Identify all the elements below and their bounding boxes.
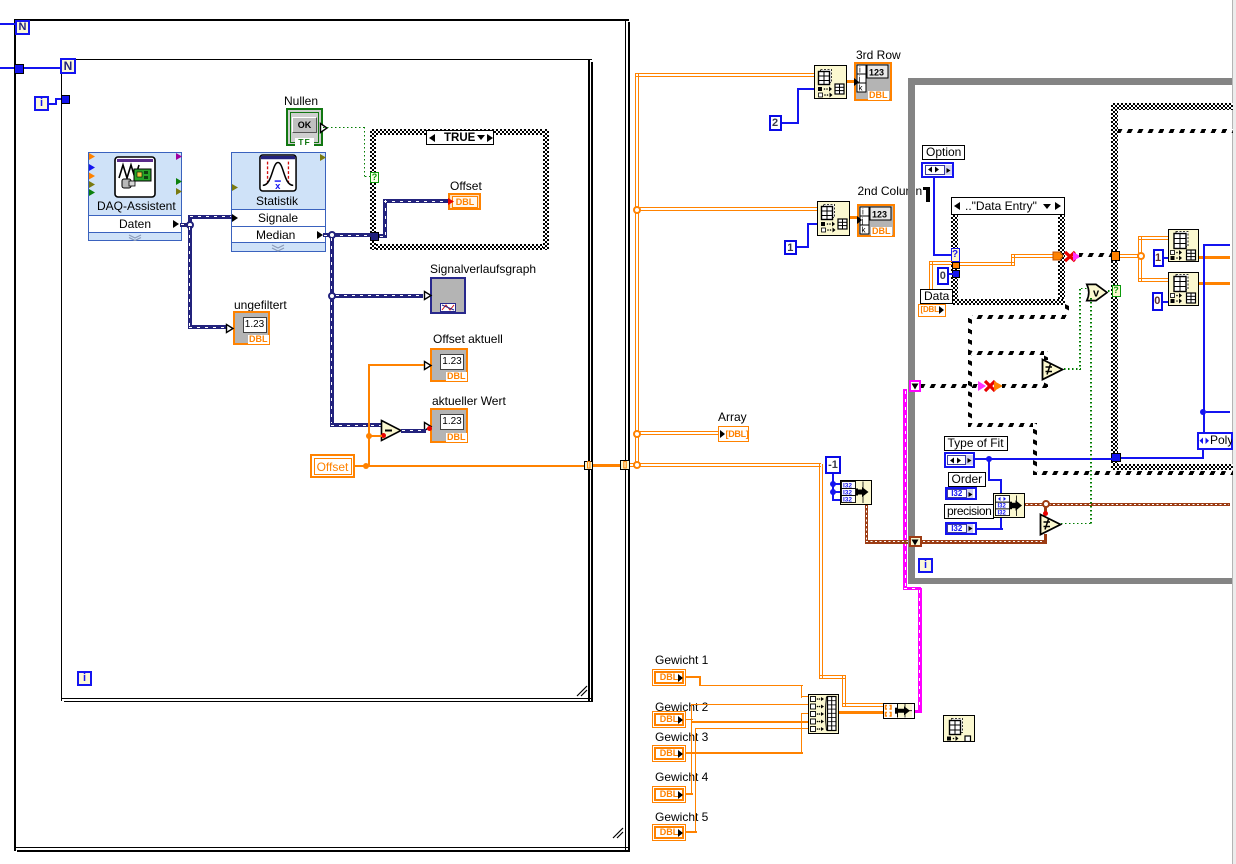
control I32 Order — [945, 487, 977, 500]
wire array down to build-matrix — [819, 464, 823, 678]
svg-text:I32: I32 — [843, 489, 852, 496]
junction dot Offset — [363, 463, 369, 469]
label Option — [922, 145, 965, 160]
tunnel outer loop left — [14, 64, 24, 74]
label Order — [948, 472, 987, 487]
wire count outer N — [0, 23, 15, 25]
tunnel orange Data Entry left — [952, 262, 960, 269]
wire Offset to subtract — [368, 435, 382, 437]
junction dot blue — [1200, 409, 1206, 415]
wire precision to bundle — [977, 528, 1003, 530]
indicator DBL Offset aktuell — [430, 348, 468, 382]
i terminal outer loop — [34, 96, 49, 111]
broken wire dashed from shift register — [921, 384, 978, 388]
wire dynamic down to ungefiltert — [188, 226, 192, 327]
not-equal node bottom — [1039, 513, 1064, 537]
window edge strip — [1232, 0, 1236, 864]
indicator DBL ungefiltert — [233, 311, 270, 345]
wire i to inner tunnel — [49, 103, 56, 105]
tunnel case TRUE left — [370, 232, 379, 241]
label Nullen — [284, 95, 318, 108]
label Signalverlaufsgraph — [430, 263, 536, 276]
svg-text:i: i — [859, 66, 861, 75]
wire constant 0 to tunnel — [949, 273, 953, 275]
node Build Array — [808, 694, 840, 734]
constant 1 — [784, 240, 797, 255]
case selector terminal ? right case — [1112, 285, 1121, 297]
broken wire dashed to not-equal — [1002, 384, 1048, 388]
case structure Data Entry selector — [951, 197, 1065, 215]
wire blue branch right — [1206, 411, 1230, 413]
constant -1 — [825, 456, 841, 474]
label precision — [944, 504, 994, 519]
indicator array [DBL] — [718, 426, 750, 442]
case structure right border — [1111, 103, 1233, 110]
label ungefiltert — [234, 299, 287, 312]
wire blue Polyn to tunnel — [1202, 450, 1204, 459]
wire dynamic Daten output — [180, 223, 192, 227]
broken wire arrow orange — [993, 380, 1004, 392]
label Gewicht 1 — [655, 654, 708, 667]
wire constant 0 right — [1163, 301, 1168, 303]
case structure TRUE border — [370, 129, 549, 135]
svg-text:x: x — [275, 181, 281, 192]
svg-text:I32: I32 — [843, 482, 852, 489]
broken wire dashed bottom right — [1033, 471, 1234, 475]
junction dot -1 b — [830, 489, 836, 495]
junction ring Median — [328, 231, 336, 239]
case selector terminal ? — [370, 172, 379, 183]
black elbow mark — [923, 187, 930, 191]
wire array inside Data Entry case — [960, 262, 1015, 266]
indicator 3rd Row — [854, 62, 893, 101]
control I32 precision — [945, 522, 977, 535]
constant 0 right — [1152, 292, 1164, 311]
wire dynamic up to Signale — [188, 215, 192, 225]
wire Option to case selector — [933, 178, 935, 256]
wire Gewicht 5 — [686, 831, 697, 833]
svg-text:I32: I32 — [997, 510, 1006, 516]
Statistik express VI — [231, 152, 327, 252]
tunnel indexing Data Entry right — [1052, 250, 1064, 262]
i terminal while loop — [918, 558, 933, 573]
constant 2 — [769, 115, 782, 131]
wire brown down to not-equal — [1044, 506, 1048, 514]
control array Data [DBL] — [918, 304, 946, 317]
wire constant 1 to index — [797, 246, 809, 248]
N terminal outer loop — [15, 20, 30, 35]
svg-text:I32: I32 — [997, 503, 1006, 509]
indicator 2nd Column — [857, 204, 896, 237]
svg-text:i: i — [862, 207, 864, 216]
label Array — [718, 411, 747, 424]
constant 0 Data Entry — [937, 267, 949, 285]
subtract node — [380, 419, 404, 443]
wire array main vertical — [635, 73, 639, 465]
junction ring array indicator branch — [640, 431, 718, 435]
control ring Option — [921, 162, 954, 178]
broken wire arrow magenta 2 — [977, 380, 987, 392]
tunnel blue right case — [1111, 453, 1121, 463]
wire brown cluster output — [1025, 503, 1230, 507]
junction ring brown — [1042, 500, 1050, 508]
label Gewicht 2 — [655, 701, 708, 714]
wire Gewicht 1 — [686, 676, 701, 678]
wire into left tunnel — [0, 67, 14, 69]
wire magenta matrix — [915, 710, 922, 714]
coercion dot not-equal — [1043, 511, 1048, 516]
wire array top to Index Array 1 — [635, 73, 815, 77]
label Type of Fit — [944, 436, 1008, 451]
svg-text:v: v — [1093, 288, 1100, 300]
N terminal inner loop — [60, 58, 76, 74]
node Index Array 1 — [814, 65, 847, 99]
indicator DBL Offset inside case — [448, 193, 481, 210]
svg-text:I32: I32 — [843, 496, 852, 503]
wire Gewicht 4 — [686, 793, 693, 795]
control DBL Gewicht 1 — [652, 669, 686, 686]
label Offset (inside case) — [450, 180, 482, 193]
broken wire arrow magenta — [1072, 251, 1082, 262]
tunnel orange right case left — [1111, 251, 1120, 261]
indicator DBL aktueller Wert — [430, 408, 468, 443]
coercion dot aktueller Wert — [427, 426, 432, 431]
tunnel outer loop right (indexing) — [620, 460, 630, 470]
wire array Data to tunnel — [929, 261, 933, 304]
wire Type of Fit branch to bundle — [988, 459, 990, 480]
for-loop outer corner handle — [612, 827, 624, 839]
wire green or output — [1108, 290, 1113, 292]
wire constant 2 to index — [782, 122, 799, 124]
control DBL Gewicht 4 — [652, 786, 686, 803]
node Index and Bundle I32 — [840, 480, 873, 506]
wire array inside right case — [1120, 254, 1141, 258]
wire Gewicht 3 — [686, 752, 803, 754]
junction ring array right case — [1137, 252, 1145, 260]
wire Offset up branch — [368, 365, 370, 465]
for-loop inner border — [61, 59, 63, 701]
wire Index Array right 2 output — [1199, 282, 1231, 285]
node Convert to Real Matrix — [883, 703, 915, 720]
tunnel inner loop right (indexing) — [584, 461, 594, 471]
node Index Array right 2 — [1168, 272, 1199, 306]
junction ring Daten — [186, 221, 194, 229]
i terminal inner loop — [77, 671, 92, 686]
control DBL Gewicht 5 — [652, 824, 686, 841]
wire dynamic to subtract node — [330, 423, 383, 427]
wire Gewicht 2 — [686, 719, 693, 721]
label control Offset — [310, 454, 355, 478]
junction ring graph branch — [328, 292, 336, 300]
constant enum Polynomial — [1197, 432, 1234, 450]
or gate — [1085, 283, 1109, 302]
broken wire dashed to right case — [1079, 253, 1111, 257]
case selector TRUE — [426, 130, 494, 145]
junction ring array row2 — [640, 207, 817, 211]
tunnel inner loop left — [61, 95, 70, 104]
broken wire dashed top right — [1118, 129, 1233, 133]
wire dynamic vertical Median down — [330, 237, 334, 427]
while loop border — [908, 78, 1232, 85]
shift register left magenta — [909, 380, 922, 392]
node Index Array 2 — [817, 201, 850, 236]
wire dynamic subtract output — [401, 429, 426, 433]
svg-text:123: 123 — [869, 68, 884, 78]
wire green not-equal top output — [1064, 368, 1081, 370]
constant 1 right — [1153, 249, 1164, 268]
broken wire dashed from case corner — [1065, 304, 1069, 319]
broken wire X mark — [1063, 250, 1077, 263]
broken wire dashed branch to not-equal top — [968, 351, 1049, 355]
broken wire X mark 2 — [983, 379, 997, 393]
node bundle fit options — [993, 493, 1025, 518]
wire dynamic to Signalverlaufsgraph — [335, 294, 423, 298]
coercion dot subtract input — [381, 433, 386, 438]
label 3rd Row — [856, 49, 901, 62]
indicator Signalverlaufsgraph terminal — [430, 277, 466, 314]
label Gewicht 3 — [655, 731, 708, 744]
wire brown init to shift register — [865, 505, 869, 544]
tunnel blue Data Entry left — [952, 270, 961, 278]
shift register left brown — [909, 536, 922, 548]
label 2nd Column — [858, 185, 923, 198]
node Index Array unwired — [943, 715, 975, 742]
junction dot Type of Fit — [986, 456, 992, 462]
svg-text:123: 123 — [872, 209, 887, 219]
wire boolean Nullen to case selector (green dotted) — [323, 127, 365, 129]
junction ring array bottom — [630, 463, 821, 467]
wire Index Array 1 output — [847, 80, 854, 83]
label aktueller Wert — [432, 395, 506, 408]
wire brown shift register to not-equal — [922, 540, 1048, 544]
wire tunnel to inner N — [24, 67, 61, 69]
for-loop outer border — [14, 19, 16, 851]
wire blue result corner — [1203, 244, 1231, 246]
wire Build Array output — [839, 711, 883, 715]
label Gewicht 4 — [655, 771, 708, 784]
control ring Type of Fit — [944, 452, 975, 468]
junction dot -1 a — [830, 481, 836, 487]
wire Offset control to tunnel — [355, 465, 585, 467]
wire Index Array right 1 output — [1199, 256, 1231, 259]
label Data — [920, 289, 953, 304]
not-equal node top — [1041, 358, 1066, 382]
wire Index Array 2 output — [850, 216, 857, 219]
case selector terminal ? Data Entry — [951, 248, 960, 262]
wire dynamic Median output — [323, 233, 371, 237]
wire dynamic inside case to Offset indicator — [379, 234, 387, 238]
wire Type of Fit to tunnel — [975, 458, 1112, 460]
wire between tunnels — [593, 464, 620, 467]
node Index Array right 1 — [1168, 229, 1199, 263]
wire constant -1 down — [832, 474, 834, 501]
wire green not-equal bottom output — [1061, 523, 1092, 525]
DAQ-Assistent express VI — [88, 152, 183, 241]
case structure Data Entry border — [951, 215, 958, 306]
for-loop inner corner handle — [576, 685, 588, 697]
wire constant 1 right — [1164, 257, 1168, 259]
control DBL Gewicht 3 — [652, 745, 686, 762]
junction dot Offset branch — [366, 433, 372, 439]
label Offset aktuell — [433, 333, 503, 346]
label Gewicht 5 — [655, 811, 708, 824]
control DBL Gewicht 2 — [652, 711, 686, 728]
boolean OK button Nullen — [286, 108, 323, 146]
